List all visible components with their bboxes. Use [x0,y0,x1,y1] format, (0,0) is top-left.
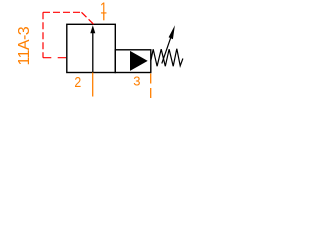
pilot flow triangle [130,51,148,71]
port 3 line [150,74,152,99]
svg-text:3: 3 [133,74,140,89]
callout zone bottom line [43,57,67,59]
flow arrow shaft [92,33,94,73]
svg-text:2: 2 [74,74,81,90]
valve main body box [67,24,116,72]
callout zone leader diagonal [82,12,94,24]
spring [151,49,183,66]
port 2 line [92,73,94,97]
svg-text:1: 1 [100,0,107,18]
callout zone top line [43,11,82,13]
adjustment arrow head [169,25,175,39]
flow arrow head [90,25,95,33]
adjustment arrow shaft [162,38,171,63]
pilot section box [115,50,151,73]
callout zone left line [42,12,44,57]
port 1 line [103,14,105,21]
svg-text:11A-3: 11A-3 [16,26,33,65]
